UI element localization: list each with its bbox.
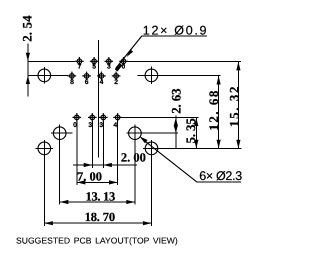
svg-text:12× Ø0.9: 12× Ø0.9 [143, 23, 208, 37]
hole outer-left crosshair + 18.70 extension [43, 140, 45, 226]
arrow 12.68 bottom down [217, 140, 221, 149]
wire centerline vertical [97, 40, 99, 157]
arrow leader 6x d2.3 [139, 136, 147, 143]
svg-text:2: 2 [114, 79, 118, 86]
pad 9 bottom row [75, 115, 80, 120]
arrow leader 12x d0.9 tail blob [115, 63, 123, 71]
wire dim line 5.35 vertical [195, 118, 197, 149]
arrow 2.00 right left-pointing [103, 163, 112, 167]
wire extension line row2 left (2.54 bottom) [28, 74, 68, 76]
svg-text:6× Ø2.3: 6× Ø2.3 [199, 169, 242, 183]
wire extension pad4 down [117, 122, 119, 185]
wire extension line B from hole TR [158, 74, 221, 76]
pad 8 [70, 74, 75, 79]
wire dim line 18.70 horizontal [44, 222, 151, 224]
wire dim line 2.63 vertical [175, 116, 177, 149]
arrow 2.00 left right-pointing [84, 163, 93, 167]
hole outer-left circle [38, 142, 51, 155]
arrow 12.68 top up [217, 76, 221, 85]
arrow 2.54 bottom up [26, 75, 30, 84]
wire extension line inner holes right (y=133.2) [141, 132, 178, 134]
arrow 7.00 left [77, 180, 86, 184]
svg-text:6: 6 [85, 79, 89, 86]
pad 10 bottom row [90, 115, 95, 120]
svg-text:3: 3 [99, 122, 103, 129]
wire extension line row1 left (2.54 top) [28, 60, 75, 62]
leader underline 12x d0.9 [142, 35, 207, 37]
hole TL crosshair vertical [43, 67, 45, 84]
hole TR circle [145, 69, 158, 82]
wire dim line 12.68 vertical [218, 75, 220, 148]
wire extension pad2 down [91, 122, 93, 168]
pad 12 bottom row [115, 115, 120, 120]
hole inner-left crosshair + 13.13 extension [59, 125, 61, 205]
arrow 13.13 left [60, 200, 69, 204]
wire dim line 2.54 vertical [27, 44, 29, 97]
arrow leader 12x d0.9 [127, 49, 134, 57]
wire extension line A top right (row1 level) [127, 60, 241, 62]
arrow 18.70 right [143, 221, 152, 225]
pad 3 [107, 59, 112, 64]
arrow 7.00 right [109, 180, 118, 184]
arrow 5.35 bottom down [194, 140, 198, 149]
svg-text:SUGGESTED PCB LAYOUT(TOP VIEW): SUGGESTED PCB LAYOUT(TOP VIEW) [16, 235, 178, 245]
svg-text:0: 0 [73, 122, 77, 129]
svg-text:7. 00: 7. 00 [77, 169, 102, 183]
arrow 2.54 top down [26, 53, 30, 62]
hole inner-right circle [129, 127, 142, 140]
svg-text:5: 5 [92, 64, 96, 71]
wire extension line bottom pads right (y=117.5) [122, 117, 198, 119]
svg-text:7: 7 [78, 64, 82, 71]
pad 4 [99, 74, 104, 79]
wire extension pad1 down [76, 122, 78, 185]
svg-text:0: 0 [122, 64, 126, 71]
hole outer-right crosshair + 18.70 extension [151, 140, 153, 226]
arrow 2.63 top up [174, 118, 178, 126]
hole outer-right circle [145, 142, 158, 155]
hole TR crosshair [150, 67, 152, 85]
arrow 13.13 right [126, 200, 135, 204]
wire dim line 7.00 horizontal [77, 181, 118, 183]
svg-text:3: 3 [107, 64, 111, 71]
pad 1 [121, 59, 126, 64]
svg-text:4: 4 [113, 122, 117, 129]
svg-text:2. 00: 2. 00 [121, 151, 146, 165]
pad group: 12 x 0.9 pads with crosshairs [68, 57, 128, 122]
svg-text:18. 70: 18. 70 [85, 210, 115, 224]
leader underline 6x d2.3 [197, 181, 241, 183]
arrow 18.70 left [44, 221, 53, 225]
pad 2 [114, 74, 119, 79]
wire extension pad3 down [102, 122, 104, 168]
svg-text:5. 35: 5. 35 [183, 118, 198, 144]
wire dim line 13.13 horizontal [60, 201, 135, 203]
svg-text:4: 4 [100, 79, 104, 86]
arrow 2.63 bottom down [174, 125, 178, 133]
pad 7 [77, 59, 82, 64]
pad 6 [84, 74, 89, 79]
wire extension line outer holes right (y=148.4) [158, 147, 241, 149]
wire dim line 15.32 vertical [237, 61, 239, 148]
arrow 5.35 top up [194, 118, 198, 127]
pad 5 [92, 59, 97, 64]
leader line 12x d0.9 [116, 36, 142, 69]
wire dim line 2.00 horizontal [73, 164, 137, 166]
arrow 15.32 bottom down [236, 140, 240, 149]
svg-text:8: 8 [70, 79, 74, 86]
svg-text:15. 32: 15. 32 [226, 85, 241, 127]
svg-text:2. 63: 2. 63 [169, 88, 184, 114]
leader line 6x d2.3 [143, 139, 198, 182]
hole TL circle [38, 69, 51, 82]
pad 11 bottom row [101, 115, 106, 120]
svg-text:2. 54: 2. 54 [20, 15, 35, 42]
arrow 15.32 top up [236, 62, 240, 71]
svg-text:3: 3 [88, 122, 92, 129]
svg-text:13. 13: 13. 13 [86, 189, 116, 203]
hole inner-right crosshair + 13.13 extension [134, 125, 136, 205]
hole inner-left circle [53, 127, 66, 140]
svg-text:12. 68: 12. 68 [206, 89, 221, 131]
